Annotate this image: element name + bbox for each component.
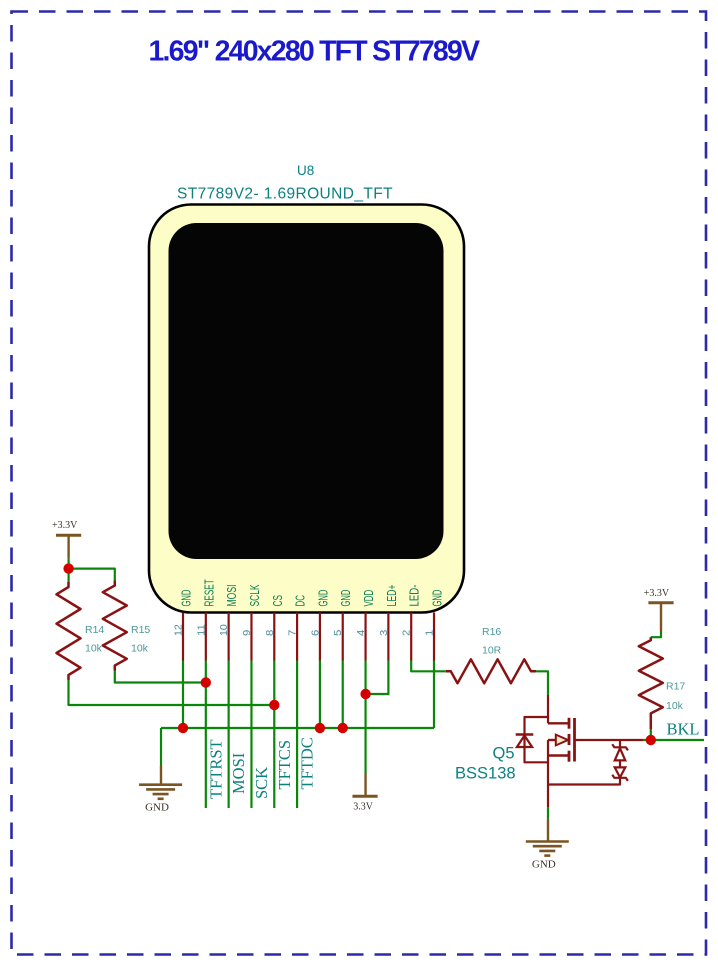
node GND pin12 junction <box>178 723 188 733</box>
node VDD junction <box>360 689 370 699</box>
wire R15 bottom to RESET <box>115 671 206 683</box>
wire pin4 VDD down <box>364 661 366 775</box>
wire R16 to Q5 drain <box>536 671 548 695</box>
svg-text:+3.3V: +3.3V <box>52 520 78 531</box>
wire VDD power stem <box>364 774 366 796</box>
wire pin1 GND down <box>433 661 435 729</box>
svg-text:RESET: RESET <box>202 579 216 606</box>
Q5 zener mid stem <box>619 760 621 767</box>
svg-text:U8: U8 <box>297 163 314 178</box>
svg-text:9: 9 <box>241 630 253 636</box>
svg-text:1: 1 <box>424 630 436 636</box>
wire ground stem (right) <box>547 819 549 842</box>
wire pin8 TFTCS down <box>273 661 275 809</box>
Q5 drain connect <box>548 722 569 724</box>
wire pin5 GND down <box>342 661 344 729</box>
power symbol 3.3V (bottom) <box>352 795 377 798</box>
svg-text:+3.3V: +3.3V <box>644 588 670 599</box>
node GND pin6 junction <box>315 723 325 733</box>
svg-text:GND: GND <box>431 590 445 607</box>
U8 pin 3 stub <box>387 613 389 661</box>
Q5 source connect <box>548 754 569 756</box>
wire R17 bottom to BKL node <box>650 729 652 740</box>
svg-text:11: 11 <box>195 624 207 636</box>
resistor R17 <box>639 637 663 729</box>
wire ground stem (left) <box>160 766 162 785</box>
svg-text:4: 4 <box>355 630 367 636</box>
Q5 zener stem top <box>619 740 621 747</box>
svg-text:10R: 10R <box>482 645 502 657</box>
svg-text:R17: R17 <box>666 681 685 693</box>
svg-text:GND: GND <box>339 590 353 607</box>
svg-text:1.69" 240x280 TFT ST7789V: 1.69" 240x280 TFT ST7789V <box>149 35 481 67</box>
Q5 body diode cathode bar <box>516 733 534 735</box>
wire pin2 LED- to R16 <box>411 661 446 672</box>
svg-text:GND: GND <box>316 590 330 607</box>
node RESET junction <box>201 677 211 687</box>
resistor R16 <box>446 659 536 683</box>
svg-text:SCK: SCK <box>252 767 271 799</box>
resistor R15 <box>103 581 127 671</box>
wire GND bus to ground <box>160 728 162 766</box>
Q5 zener triangle (bottom) <box>615 767 626 777</box>
U8 pin 11 stub <box>205 613 207 661</box>
svg-text:TFTDC: TFTDC <box>298 737 317 789</box>
node GND pin5 junction <box>338 723 348 733</box>
Q5 zener cathode bar (top) <box>612 744 628 750</box>
TFT screen (black) <box>169 223 444 559</box>
Q5 zener triangle (top) <box>615 748 626 760</box>
svg-text:12: 12 <box>173 624 185 636</box>
svg-text:10k: 10k <box>131 643 149 655</box>
svg-text:10k: 10k <box>666 700 684 712</box>
wire +3.3V stem (left) <box>67 535 69 558</box>
Q5 channel top dash <box>568 718 571 729</box>
resistor R14 <box>57 582 81 680</box>
Q5 gate wire to BKL <box>575 739 644 741</box>
wire source green segment <box>547 807 549 818</box>
svg-text:Q5: Q5 <box>493 745 515 763</box>
transistor Q5 drain lead <box>547 695 549 723</box>
U8 pin 7 stub <box>296 613 298 661</box>
svg-text:8: 8 <box>264 630 276 636</box>
svg-text:BKL: BKL <box>667 720 700 739</box>
Q5 body-source vertical <box>547 740 549 785</box>
wire node to R15 top <box>69 569 115 581</box>
svg-text:TFTRST: TFTRST <box>206 739 225 799</box>
svg-text:MOSI: MOSI <box>229 753 248 794</box>
Q5 body arrow line <box>548 739 557 741</box>
svg-text:7: 7 <box>287 630 299 636</box>
wire pin3 LED+ to VDD node <box>366 661 389 695</box>
node CS junction <box>269 700 279 710</box>
svg-text:SCLK: SCLK <box>248 584 262 606</box>
svg-text:R16: R16 <box>482 626 501 638</box>
Q5 body diode triangle <box>517 736 532 748</box>
Q5 channel middle dash <box>568 734 571 745</box>
svg-text:GND: GND <box>145 802 169 814</box>
wire BKL to border <box>643 739 704 741</box>
svg-text:TFTCS: TFTCS <box>275 740 294 790</box>
wire Q5 source down <box>547 785 549 808</box>
wire stem to node (left) <box>67 558 69 582</box>
Q5 gate bar <box>573 718 576 762</box>
svg-text:DC: DC <box>294 595 308 607</box>
svg-text:3.3V: 3.3V <box>353 802 374 813</box>
wire +3.3V stem (right) <box>660 603 662 631</box>
U8 pin 12 stub <box>182 613 184 661</box>
wire pin7 TFTDC down <box>296 661 298 809</box>
U8 pin 4 stub <box>364 613 366 661</box>
ground symbol (left) <box>139 783 182 786</box>
svg-text:VDD: VDD <box>362 590 376 607</box>
Q5 body diode loop <box>525 717 549 762</box>
svg-text:GND: GND <box>532 859 556 871</box>
svg-text:6: 6 <box>309 630 321 636</box>
U8 pin 1 stub <box>433 613 435 661</box>
wire GND bus horizontal <box>161 727 434 729</box>
svg-text:GND: GND <box>180 590 194 607</box>
svg-text:10: 10 <box>218 624 230 636</box>
node +3.3V/R14/R15 <box>63 563 73 573</box>
svg-text:2: 2 <box>401 630 413 636</box>
svg-text:CS: CS <box>271 595 285 607</box>
wire pin12 GND down <box>182 661 184 729</box>
U8 pin 5 stub <box>342 613 344 661</box>
svg-text:BSS138: BSS138 <box>455 765 516 783</box>
wire pin11 TFTRST down <box>205 661 207 809</box>
Q5 zener to source wire <box>548 778 620 785</box>
svg-text:R15: R15 <box>131 624 150 636</box>
power symbol +3.3V (left) <box>56 534 81 537</box>
wire R14 bottom to CS <box>69 680 275 705</box>
U8 pin 2 stub <box>410 613 412 661</box>
svg-text:R14: R14 <box>85 624 104 636</box>
wire pin6 GND down <box>319 661 321 729</box>
power symbol +3.3V (right) <box>648 601 673 604</box>
wire pin10 MOSI down <box>228 661 230 809</box>
Q5 body arrow head <box>556 735 568 746</box>
svg-text:MOSI: MOSI <box>225 585 239 607</box>
svg-text:5: 5 <box>332 630 344 636</box>
svg-text:LED-: LED- <box>408 585 422 607</box>
wire stem jog to R17 <box>651 631 661 637</box>
U8 pin 6 stub <box>319 613 321 661</box>
TFT module U8 body <box>149 205 464 613</box>
U8 pin 10 stub <box>228 613 230 661</box>
svg-text:ST7789V2- 1.69ROUND_TFT: ST7789V2- 1.69ROUND_TFT <box>177 186 393 203</box>
U8 pin 9 stub <box>250 613 252 661</box>
svg-text:10k: 10k <box>85 643 103 655</box>
svg-text:3: 3 <box>378 630 390 636</box>
Q5 zener cathode bar (bottom) <box>612 775 628 781</box>
svg-text:LED+: LED+ <box>385 585 399 607</box>
node BKL junction <box>646 735 656 745</box>
wire pin9 SCK down <box>250 661 252 809</box>
U8 pin 8 stub <box>273 613 275 661</box>
ground symbol (right) <box>526 840 569 843</box>
Q5 channel bottom dash <box>568 751 571 762</box>
